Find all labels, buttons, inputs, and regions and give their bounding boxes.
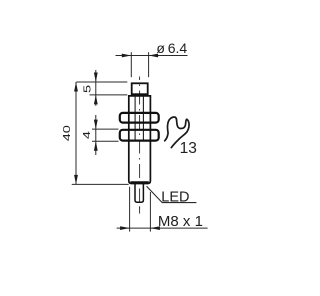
svg-text:4: 4 <box>81 131 93 139</box>
svg-text:ø 6.4: ø 6.4 <box>156 40 187 56</box>
nut 1 <box>120 113 159 123</box>
dim 5: bottom arrow <box>94 95 98 105</box>
thread core line left <box>134 96 136 141</box>
dim 40: bottom extension line <box>72 183 129 185</box>
dim 5: bottom extension line <box>90 94 128 96</box>
LED leader line <box>147 186 197 202</box>
centerline tail dash below stud <box>139 206 141 213</box>
dim M8x1: extension line left <box>129 187 131 232</box>
dim o6.4: right arrow <box>149 54 159 58</box>
nut 2 <box>120 130 159 141</box>
dim o6.4: extension line left <box>130 52 132 77</box>
dim 40: bottom arrow <box>74 175 78 185</box>
dim M8x1: left arrow <box>120 226 130 230</box>
dim 4: dimension line <box>95 115 97 155</box>
svg-text:13: 13 <box>180 140 197 157</box>
dim 4: top extension line <box>92 128 119 130</box>
dim 4: top arrow <box>94 120 98 130</box>
dim 5/40: shared top extension line <box>76 81 127 83</box>
dim M8x1: right arrow <box>150 226 160 230</box>
svg-text:LED: LED <box>161 189 189 205</box>
dim 5: top arrow <box>94 73 98 83</box>
bottom stud <box>135 184 143 202</box>
thread core line right <box>142 96 144 141</box>
body bottom edge thick <box>130 181 148 183</box>
dim 4: bottom arrow <box>94 141 98 151</box>
dim 40: dimension line <box>75 82 77 184</box>
dim 5: dimension line <box>95 70 97 106</box>
dim o6.4: extension line right <box>148 52 150 77</box>
svg-text:5: 5 <box>82 85 94 93</box>
dim 40: top arrow <box>74 82 78 92</box>
body M8 barrel <box>129 96 151 184</box>
dim M8x1: dimension line <box>117 227 208 229</box>
sensing tip (o 6.4) <box>132 83 148 94</box>
svg-text:M8 x 1: M8 x 1 <box>158 213 203 230</box>
wrench icon (spanner size 13) <box>165 117 189 148</box>
dim 4: bottom extension line <box>92 140 119 142</box>
dim o6.4: left arrow <box>122 54 132 58</box>
centerline <box>139 77 141 214</box>
svg-text:40: 40 <box>61 125 73 141</box>
dim o6.4: dimension line <box>116 55 188 57</box>
dim M8x1: extension line right <box>149 192 151 232</box>
